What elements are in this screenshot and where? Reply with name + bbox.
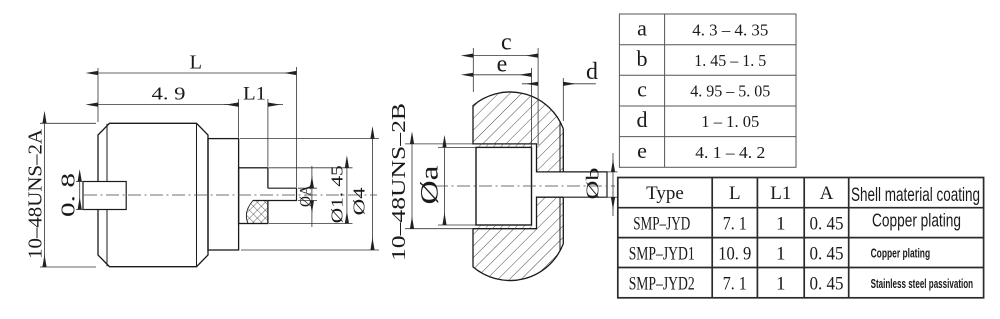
- svg-text:1 – 1. 05: 1 – 1. 05: [701, 112, 759, 131]
- svg-text:d: d: [586, 59, 598, 85]
- svg-text:1: 1: [776, 244, 786, 265]
- svg-text:L1: L1: [770, 183, 791, 204]
- svg-text:Øb: Øb: [583, 168, 603, 200]
- svg-text:Ø4: Ø4: [350, 187, 369, 216]
- svg-text:4. 9: 4. 9: [152, 83, 186, 103]
- svg-text:Copper plating: Copper plating: [872, 211, 961, 231]
- svg-text:7. 1: 7. 1: [723, 274, 747, 295]
- svg-text:10–48UNS–2B: 10–48UNS–2B: [388, 103, 410, 261]
- svg-text:Stainless steel passivation: Stainless steel passivation: [871, 276, 974, 291]
- svg-text:L: L: [729, 183, 741, 204]
- svg-text:L: L: [190, 51, 203, 73]
- svg-text:SMP–JYD1: SMP–JYD1: [629, 244, 695, 265]
- svg-text:7. 1: 7. 1: [723, 214, 747, 235]
- svg-text:Øa: Øa: [417, 166, 444, 205]
- svg-text:b: b: [637, 46, 648, 71]
- svg-text:e: e: [637, 138, 647, 163]
- svg-text:d: d: [637, 107, 648, 132]
- svg-text:SMP–JYD: SMP–JYD: [633, 214, 690, 235]
- svg-text:10. 9: 10. 9: [718, 244, 751, 265]
- svg-text:L1: L1: [243, 83, 266, 104]
- svg-text:Shell material coating: Shell material coating: [851, 184, 980, 206]
- svg-text:0. 45: 0. 45: [810, 244, 844, 265]
- svg-text:10–48UNS–2A: 10–48UNS–2A: [25, 128, 47, 259]
- svg-text:0. 45: 0. 45: [810, 274, 844, 295]
- svg-text:Copper plating: Copper plating: [871, 246, 931, 261]
- svg-text:c: c: [637, 77, 647, 102]
- svg-text:ØA: ØA: [298, 185, 315, 207]
- svg-text:1: 1: [776, 214, 786, 235]
- svg-text:0. 8: 0. 8: [58, 173, 80, 217]
- svg-text:4. 95 – 5. 05: 4. 95 – 5. 05: [690, 82, 770, 101]
- svg-text:A: A: [820, 183, 834, 204]
- svg-text:a: a: [637, 16, 647, 41]
- svg-text:1. 45 – 1. 5: 1. 45 – 1. 5: [694, 51, 766, 70]
- svg-text:e: e: [497, 51, 508, 77]
- svg-text:4. 1 – 4. 2: 4. 1 – 4. 2: [695, 143, 765, 162]
- svg-text:0. 45: 0. 45: [810, 214, 844, 235]
- svg-text:4. 3 – 4. 35: 4. 3 – 4. 35: [692, 21, 768, 40]
- svg-text:Ø1. 45: Ø1. 45: [328, 165, 347, 223]
- svg-text:SMP–JYD2: SMP–JYD2: [629, 274, 695, 295]
- svg-text:Type: Type: [646, 183, 684, 204]
- svg-text:1: 1: [776, 274, 786, 295]
